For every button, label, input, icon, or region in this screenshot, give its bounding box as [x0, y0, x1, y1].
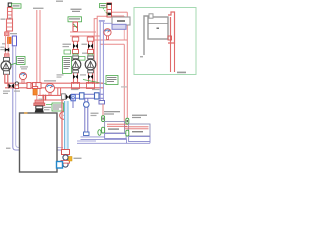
small red fittings riser 1	[73, 50, 79, 54]
left red riser wire	[5, 31, 8, 58]
green label box header (manifold top)	[68, 17, 82, 22]
air purger stack under label	[73, 22, 78, 32]
boiler supply red header	[38, 88, 64, 101]
riser 1 (pump A) red pipes	[72, 36, 78, 84]
supply header red horizontal pipes	[70, 32, 127, 44]
small red fittings riser 2	[88, 50, 94, 54]
relief valve orange body on boiler top	[33, 87, 38, 96]
riser 2 (pump B) red pipes	[87, 36, 93, 84]
lavender return pipe B (to zone 2)	[77, 141, 150, 143]
tiny text above fill valve	[10, 33, 17, 34]
label text near DHW pipes	[140, 56, 186, 73]
pump A (zone circulator)	[70, 59, 81, 70]
expansion tank lavender rect	[112, 24, 126, 29]
green label box boiler supply sensor	[39, 99, 64, 112]
zone 1 valve green pill bottom	[102, 127, 105, 133]
yellow fitting on return column	[69, 157, 73, 162]
tiny text left of separator	[1, 19, 6, 20]
pump P1 flange bottom	[4, 71, 10, 75]
zone 2 label text	[132, 115, 147, 119]
check valve below pump A	[57, 74, 79, 79]
pump B flanges	[88, 56, 94, 73]
check valve below pump B	[80, 74, 93, 79]
expansion tank lavender drop pipe	[99, 20, 113, 104]
green label box top-left	[12, 4, 22, 8]
fill valve red fitting	[5, 32, 10, 36]
supply manifold red horizontal	[57, 83, 104, 89]
P1 outlet red pipe elbow	[5, 74, 8, 87]
tiny labels above manifold	[70, 89, 100, 90]
red pipe down boiler right side	[61, 101, 63, 153]
air separator red column lower	[7, 18, 13, 31]
pump A flanges	[73, 56, 79, 73]
pump P1 flange top	[4, 58, 10, 62]
flue vent collar on boiler	[34, 100, 45, 113]
valve (black bowtie) riser 2	[82, 44, 94, 49]
tiny text right of return column	[74, 158, 82, 159]
bright blue fitting at boiler bottom	[57, 162, 63, 169]
pressure reducing valve gray box	[112, 17, 130, 25]
tank hot-water red loop	[168, 12, 175, 43]
shutoff valve (black bowtie) on left riser	[5, 48, 9, 53]
zone 1 valve green pill top	[102, 116, 105, 122]
tank cold-water gray pipe	[144, 14, 153, 55]
zone 2 valve green pill bottom	[126, 130, 129, 136]
boiler cabinet	[20, 112, 58, 172]
zone 1 baseboard rect	[105, 122, 127, 134]
black ball valve on supply	[9, 84, 15, 89]
main red supply pipe (lower left horizontal)	[5, 83, 57, 88]
top-left auto air vent black cap	[8, 3, 11, 6]
make-up water text	[91, 113, 99, 117]
tiny labels under supply pipe	[3, 91, 20, 95]
zone 1 return blue rect	[105, 134, 127, 139]
zone return blue lines to boiler	[127, 139, 151, 144]
tall green label box left of pump A	[63, 57, 72, 74]
drain valve with round handle	[15, 82, 19, 89]
green small label left of riser1	[64, 50, 87, 60]
tiny label above riser pair	[33, 8, 44, 9]
blue pipe from riser area to boiler return	[72, 98, 74, 108]
pressure gauge G1	[19, 72, 26, 83]
pump P1 (boiler circulator)	[1, 61, 11, 71]
tiny text left of valve	[0, 47, 4, 51]
red riser pair to zones (left-center, tall)	[37, 10, 40, 100]
DHW red pipe pair down from tank	[171, 43, 175, 72]
red bowtie valve above pump P1	[4, 54, 9, 58]
boiler return blue column with fittings	[61, 101, 70, 167]
blue fitting on return manifold 2	[95, 93, 100, 99]
pump B (zone circulator)	[85, 59, 96, 70]
red riser pair right of pumps	[94, 12, 127, 84]
union fittings on supply near riser tee	[27, 83, 37, 89]
air separator red column upper	[8, 8, 13, 20]
blue vertical return drop (center)	[84, 98, 90, 136]
zone 2 valve green pill top	[126, 118, 129, 124]
blue return riser pair (far left, long)	[13, 46, 63, 150]
small green flag riser 1	[73, 54, 78, 58]
gauge G4 near fill	[104, 29, 111, 40]
zone 1 label text	[104, 111, 120, 115]
fill valve orange body	[2, 37, 11, 44]
zone 1 supply red stub	[102, 104, 104, 116]
blue fitting on return manifold 0	[71, 95, 75, 101]
valve (black bowtie) riser 1	[63, 44, 79, 49]
return manifold blue horizontal	[71, 94, 104, 98]
zone supply red pair to right zones	[124, 12, 127, 127]
top-center tiny title text	[56, 1, 82, 13]
backflow preventer blue box	[12, 36, 16, 46]
boiler temperature gauge G2	[44, 80, 56, 95]
small green flag riser 2	[88, 54, 93, 58]
existing-system green enclosure box	[134, 8, 196, 75]
purge valve green pill on return	[98, 130, 110, 136]
lavender return pipe A (to zone 1)	[81, 137, 127, 140]
gauge G3 on boiler right pipe	[60, 112, 68, 120]
zone 2 baseboard rect	[125, 124, 151, 136]
top fill assembly green label	[100, 4, 107, 8]
fill assembly red column with check	[103, 3, 112, 17]
zone 2 return blue rect	[129, 137, 150, 142]
gray union fitting on header	[62, 94, 66, 100]
green label box for P1	[10, 57, 28, 70]
tiny text on blue return	[6, 148, 11, 149]
indirect water-heater tank	[148, 17, 168, 39]
ball valve (black X) on boiler header	[66, 94, 71, 100]
blue fitting on return manifold 1	[80, 93, 85, 99]
tee fitting riser to supply	[36, 83, 41, 89]
green label box right of pump B	[83, 76, 127, 88]
